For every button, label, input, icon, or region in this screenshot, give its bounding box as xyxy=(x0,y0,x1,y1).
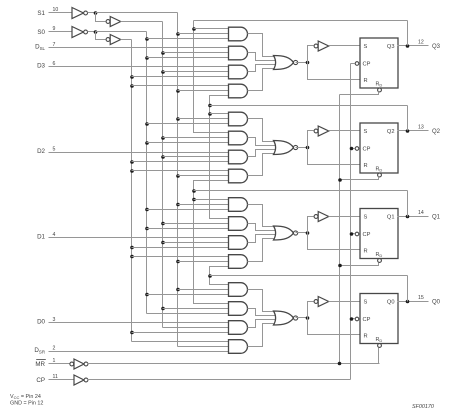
wire Q0 output xyxy=(398,301,429,303)
svg-text:11: 11 xyxy=(53,374,58,380)
svg-text:RD: RD xyxy=(376,252,383,258)
wire Q3 fb up xyxy=(407,21,409,46)
AND gate G1 stage Q2 xyxy=(229,112,248,126)
junction S1bar to G4 stage Q3 xyxy=(176,89,180,93)
junction S1bar to G1 stage Q0 xyxy=(176,288,180,292)
wire S0n to vertical xyxy=(96,31,147,33)
wire to S inverter stage Q3 xyxy=(308,46,314,63)
AND gate G3 stage Q0 xyxy=(229,321,248,335)
wire S0 to G4 stage Q0 xyxy=(132,341,229,343)
svg-text:D1: D1 xyxy=(37,234,45,241)
RD bubble FF1 xyxy=(378,259,382,263)
junction CP stage2 xyxy=(350,147,354,151)
input D3 pin 6 xyxy=(49,66,229,68)
AND gate G1 stage Q3 xyxy=(229,27,248,41)
wire S0bar vertical bus xyxy=(146,32,148,314)
input CP pin 11 xyxy=(49,379,74,381)
wire S1bar to G4 stage Q0 xyxy=(178,346,229,348)
junction S1bar to G4 stage Q2 xyxy=(176,174,180,178)
RD bubble FF2 xyxy=(378,173,382,177)
junction Q0 fb join xyxy=(208,274,212,278)
wire G2 out to NOR stage Q3 xyxy=(248,53,276,61)
flip-flop FF0 xyxy=(360,294,398,344)
inverter S0 buffer (U4) xyxy=(106,38,110,42)
wire G3 out to NOR stage Q3 xyxy=(248,65,276,72)
svg-text:S: S xyxy=(364,44,368,50)
svg-text:S: S xyxy=(364,300,368,306)
AND gate G3 stage Q3 xyxy=(229,65,248,79)
wire RD to MR bus FF3 xyxy=(340,92,379,95)
inverter S0 (U3) xyxy=(72,27,84,38)
svg-text:Q0: Q0 xyxy=(387,300,395,306)
junction Q3 to AND1 stage3 xyxy=(192,27,196,31)
svg-text:S: S xyxy=(364,129,368,135)
junction MR bus root xyxy=(338,362,342,366)
wire G1 out to NOR stage Q2 xyxy=(248,119,274,142)
wire to S inverter stage Q0 xyxy=(308,302,314,318)
CP input bubble FF1 xyxy=(355,232,359,236)
wire S1 vertical bus xyxy=(162,22,164,328)
svg-text:2: 2 xyxy=(53,346,56,352)
NOR gate stage Q3 xyxy=(274,56,294,70)
node S1n xyxy=(94,11,98,15)
RD bubble FF0 xyxy=(378,344,382,348)
input D2 pin 5 xyxy=(49,152,229,154)
svg-text:VCC = Pin 24: VCC = Pin 24 xyxy=(10,394,41,400)
wire G1 out to NOR stage Q1 xyxy=(248,205,274,227)
input D0 pin 3 xyxy=(49,322,229,324)
inverter MR xyxy=(70,362,74,366)
NOR gate stage Q1 xyxy=(274,226,294,240)
node NOR out stage Q1 xyxy=(306,231,310,235)
svg-text:5: 5 xyxy=(53,147,56,153)
junction Q2 fb join xyxy=(208,104,212,108)
svg-text:S: S xyxy=(364,215,368,221)
CP input bubble FF0 xyxy=(355,317,359,321)
node Q0 output xyxy=(406,300,410,304)
RD bubble FF3 xyxy=(378,88,382,92)
AND gate G2 stage Q2 xyxy=(229,131,248,145)
svg-text:6: 6 xyxy=(53,61,56,67)
input S0 pin 9 xyxy=(49,31,72,33)
AND gate G2 stage Q3 xyxy=(229,46,248,60)
wire G4 out to NOR stage Q3 xyxy=(248,69,274,91)
AND gate G3 stage Q2 xyxy=(229,150,248,164)
svg-text:RD: RD xyxy=(376,82,383,88)
node NOR out stage Q0 xyxy=(306,316,310,320)
wire Q1 output xyxy=(398,216,429,218)
junction S0bar to G1 stage Q3 xyxy=(145,37,149,41)
wire S0 vertical bus xyxy=(131,40,133,342)
junction S0bar to G2 stage Q3 xyxy=(145,56,149,60)
wire S1bar vertical bus xyxy=(177,13,179,347)
svg-text:R: R xyxy=(364,163,368,169)
wire S1n branch down xyxy=(96,13,106,22)
wire Q1 fb horizontal xyxy=(194,190,408,192)
NOR gate stage Q2 xyxy=(274,141,294,155)
AND gate G1 stage Q0 xyxy=(229,283,248,297)
wire Q0 feedback vertical x=210 xyxy=(210,267,229,285)
wire Q0 fb horizontal xyxy=(210,275,408,277)
input MR pin 1 xyxy=(49,363,70,365)
junction S0 to G4 stage Q3 xyxy=(130,84,134,88)
svg-text:S1: S1 xyxy=(37,10,45,17)
svg-text:D0: D0 xyxy=(37,319,45,326)
svg-text:MR: MR xyxy=(35,361,45,368)
wire G3 out to NOR stage Q1 xyxy=(248,235,276,243)
CP input bubble FF2 xyxy=(355,147,359,151)
wire S0bar to G2 stage Q0 xyxy=(147,313,229,315)
svg-text:Q3: Q3 xyxy=(432,44,441,50)
wire Q1 fb up xyxy=(407,191,409,217)
junction S1 to G3 stage Q3 xyxy=(161,70,165,74)
AND gate G4 stage Q2 xyxy=(229,169,248,183)
svg-text:3: 3 xyxy=(53,317,56,323)
wire Q2 fb horizontal xyxy=(210,105,408,107)
svg-text:15: 15 xyxy=(418,295,424,301)
svg-text:Q1: Q1 xyxy=(387,215,395,221)
wire G4 out to NOR stage Q1 xyxy=(248,239,274,262)
wire to S inverter stage Q2 xyxy=(308,131,314,148)
wire CP vertical bus xyxy=(350,64,352,380)
wire Q1 feedback vertical x=194 xyxy=(194,181,229,304)
wire to R input stage Q0 xyxy=(308,318,360,335)
svg-text:RD: RD xyxy=(376,167,383,173)
wire Q3 output xyxy=(398,45,429,47)
svg-text:Q1: Q1 xyxy=(432,215,441,221)
wire Q3 fb horizontal xyxy=(194,20,408,22)
AND gate G1 stage Q1 xyxy=(229,198,248,212)
svg-text:4: 4 xyxy=(53,232,56,238)
flip-flop FF1 xyxy=(360,209,398,259)
junction CP stage0 xyxy=(350,317,354,321)
svg-text:13: 13 xyxy=(418,125,424,131)
svg-text:RD: RD xyxy=(376,337,383,343)
wire Q2 fb up xyxy=(407,106,409,131)
wire MR vertical bus xyxy=(339,95,341,364)
wire Q2 feedback vertical x=210 xyxy=(210,96,229,219)
junction CP stage1 xyxy=(350,232,354,236)
junction S1 to G2 stage Q2 xyxy=(161,136,165,140)
flip-flop FF2 xyxy=(360,123,398,173)
svg-text:D2: D2 xyxy=(37,148,45,155)
junction S0 to G4 stage Q1 xyxy=(130,255,134,259)
node NOR out stage Q2 xyxy=(306,146,310,150)
inverter to S stage Q3 xyxy=(314,44,318,48)
input S1 pin 10 xyxy=(49,12,72,14)
input D1 pin 4 xyxy=(49,237,229,239)
NOR gate stage Q0 xyxy=(274,311,294,325)
node S0n xyxy=(94,30,98,34)
junction S1 to G3 stage Q2 xyxy=(161,155,165,159)
svg-text:9: 9 xyxy=(53,26,56,32)
inverter CP xyxy=(74,375,84,385)
AND gate G3 stage Q1 xyxy=(229,236,248,250)
junction S0 to G3 stage Q1 xyxy=(130,246,134,250)
svg-text:14: 14 xyxy=(418,210,424,216)
AND gate G2 stage Q1 xyxy=(229,217,248,231)
wire Q3 feedback vertical x=194 xyxy=(194,21,229,133)
junction S1 to G2 stage Q0 xyxy=(161,307,165,311)
node Q2 output xyxy=(406,129,410,133)
wire S1 to G3 stage Q0 xyxy=(163,327,229,329)
svg-text:Q3: Q3 xyxy=(387,44,395,50)
junction S1 to G3 stage Q1 xyxy=(161,241,165,245)
svg-text:Q2: Q2 xyxy=(432,129,441,135)
junction S1bar to G1 stage Q1 xyxy=(176,203,180,207)
junction Q1 fb join xyxy=(192,189,196,193)
svg-text:CP: CP xyxy=(363,317,371,323)
wire RD to MR bus FF2 xyxy=(340,177,379,180)
junction S1bar to G4 stage Q1 xyxy=(176,260,180,264)
junction Q1 to AND1 stage1 xyxy=(192,198,196,202)
svg-text:R: R xyxy=(364,249,368,255)
inverter to S stage Q1 xyxy=(314,215,318,219)
AND gate G4 stage Q3 xyxy=(229,84,248,98)
svg-text:R: R xyxy=(364,334,368,340)
AND gate G4 stage Q0 xyxy=(229,340,248,354)
CP input bubble FF3 xyxy=(355,62,359,66)
svg-text:12: 12 xyxy=(418,40,424,46)
svg-text:R: R xyxy=(364,78,368,84)
junction S0 to G4 stage Q2 xyxy=(130,169,134,173)
node Q3 output xyxy=(406,44,410,48)
AND gate G2 stage Q0 xyxy=(229,302,248,316)
svg-text:S0: S0 xyxy=(37,29,45,36)
wire RD to MR bus FF1 xyxy=(340,263,379,266)
wire to R input stage Q2 xyxy=(308,148,360,165)
wire NOR out stage Q0 xyxy=(296,317,308,319)
wire G3 out to NOR stage Q0 xyxy=(248,320,276,328)
junction S0 to G3 stage Q3 xyxy=(130,75,134,79)
inverter S1 (U1) xyxy=(72,8,84,19)
wire G2 out to NOR stage Q0 xyxy=(248,309,276,316)
wire NOR out stage Q1 xyxy=(296,232,308,234)
wire G2 out to NOR stage Q2 xyxy=(248,138,276,146)
node NOR out stage Q3 xyxy=(306,61,310,65)
wire G1 out to NOR stage Q3 xyxy=(248,34,274,57)
junction S0bar to G2 stage Q1 xyxy=(145,227,149,231)
svg-text:1: 1 xyxy=(53,358,56,364)
flip-flop FF3 xyxy=(360,38,398,88)
wire G4 out to NOR stage Q2 xyxy=(248,154,274,176)
junction S0bar to G2 stage Q2 xyxy=(145,141,149,145)
junction S0bar to G1 stage Q1 xyxy=(145,208,149,212)
junction S0bar to G1 stage Q2 xyxy=(145,122,149,126)
input DSL pin 7 xyxy=(49,47,229,49)
wire to R input stage Q1 xyxy=(308,233,360,250)
wire to S inverter stage Q1 xyxy=(308,217,314,233)
junction S0 to G3 stage Q0 xyxy=(130,331,134,335)
svg-text:Q0: Q0 xyxy=(432,300,441,306)
junction MR stage2 xyxy=(338,178,342,182)
wire NOR out stage Q3 xyxy=(296,62,308,64)
wire Q2 output xyxy=(398,130,429,132)
wire S1n to vertical xyxy=(96,12,178,14)
junction Q2 to AND1 stage2 xyxy=(208,112,212,116)
inverter to S stage Q0 xyxy=(314,300,318,304)
wire to R input stage Q3 xyxy=(308,63,360,80)
junction S0bar to G1 stage Q0 xyxy=(145,293,149,297)
svg-text:CP: CP xyxy=(363,62,371,68)
wire G1 out to NOR stage Q0 xyxy=(248,290,274,312)
inverter to S stage Q2 xyxy=(314,129,318,133)
junction S1 to G2 stage Q3 xyxy=(161,51,165,55)
wire RD to MR line FF0 xyxy=(378,348,380,364)
svg-text:Q2: Q2 xyxy=(387,129,395,135)
wire S0n branch down xyxy=(96,32,106,40)
junction S0 to G3 stage Q2 xyxy=(130,160,134,164)
wire G3 out to NOR stage Q2 xyxy=(248,150,276,157)
svg-text:GND = Pin 12: GND = Pin 12 xyxy=(10,401,43,407)
wire G4 out to NOR stage Q0 xyxy=(248,324,274,347)
wire G2 out to NOR stage Q1 xyxy=(248,224,276,231)
junction MR stage1 xyxy=(338,264,342,268)
svg-text:10: 10 xyxy=(53,7,59,13)
wire NOR out stage Q2 xyxy=(296,147,308,149)
svg-text:D3: D3 xyxy=(37,63,45,70)
junction S1bar to G1 stage Q2 xyxy=(176,117,180,121)
junction S1 to G2 stage Q1 xyxy=(161,222,165,226)
svg-text:7: 7 xyxy=(53,42,56,48)
wire Q0 fb up xyxy=(407,276,409,302)
junction S1bar to G1 stage Q3 xyxy=(176,32,180,36)
node Q1 output xyxy=(406,215,410,219)
svg-text:SF00170: SF00170 xyxy=(412,404,434,410)
svg-text:CP: CP xyxy=(363,232,371,238)
AND gate G4 stage Q1 xyxy=(229,255,248,269)
input DSR pin 2 xyxy=(49,351,229,353)
inverter S1 buffer (U2) xyxy=(106,20,110,24)
svg-text:CP: CP xyxy=(363,147,371,153)
svg-text:CP: CP xyxy=(36,377,45,384)
